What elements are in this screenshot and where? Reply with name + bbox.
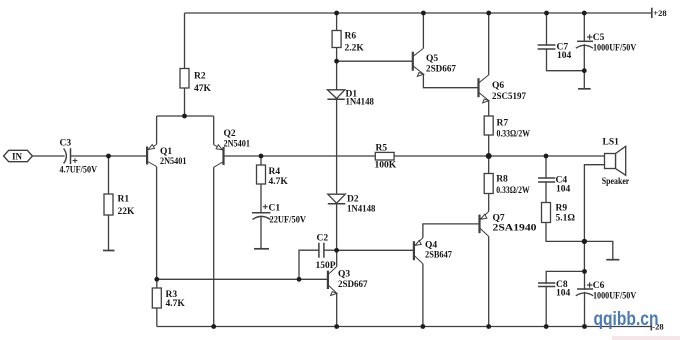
wire C4 R9 branch (546, 156, 584, 241)
svg-text:Q4: Q4 (425, 241, 437, 251)
svg-text:R9: R9 (556, 204, 568, 214)
wire R3 branch to bottom rail (156, 279, 158, 326)
resistor R5 (375, 144, 397, 171)
svg-text:1000UF/50V: 1000UF/50V (593, 291, 636, 301)
svg-text:IN: IN (12, 152, 23, 162)
wire Q6 emitter through R7 to output (488, 101, 490, 157)
wire Q2 collector to bottom rail (213, 167, 215, 326)
svg-text:104: 104 (557, 51, 572, 61)
resistor R1 (104, 194, 135, 217)
junction C4 output line (544, 154, 549, 159)
resistor R3 (152, 288, 185, 309)
ground (speaker return) (606, 259, 619, 261)
svg-text:+28: +28 (653, 8, 666, 18)
svg-text:2SD667: 2SD667 (338, 280, 368, 290)
svg-text:104: 104 (556, 184, 571, 194)
svg-text:C1: C1 (269, 204, 281, 214)
svg-text:R5: R5 (376, 144, 388, 154)
svg-text:5.1Ω: 5.1Ω (556, 214, 576, 224)
faint bottom watermark remnant (612, 336, 680, 340)
junction C7 top rail (544, 11, 549, 16)
junction Q3 emitter bottom rail (334, 324, 339, 329)
svg-text:R4: R4 (269, 167, 281, 177)
capacitor C8 (538, 280, 571, 299)
resistor R7 (484, 116, 530, 140)
capacitor C5 (576, 33, 637, 53)
svg-text:0.33Ω/2W: 0.33Ω/2W (497, 130, 531, 140)
resistor R9 (542, 203, 576, 224)
junction C2 base branch (297, 277, 302, 282)
junction R2 tail node (182, 114, 187, 119)
resistor R8 (484, 174, 530, 197)
transistor Q1 (147, 144, 187, 167)
svg-text:2N5401: 2N5401 (224, 140, 251, 150)
wire Q4 base bias line (337, 249, 414, 251)
wire R8 branch output to Q7 emitter (488, 156, 490, 212)
transistor Q4 (414, 238, 452, 264)
wire -28 terminal tick (650, 323, 652, 331)
svg-text:Q1: Q1 (160, 147, 172, 157)
svg-text:104: 104 (556, 289, 571, 299)
junction Q7 collector bottom rail (486, 324, 491, 329)
wire Q4 emitter to Q7 base (423, 224, 480, 238)
svg-text:2.2K: 2.2K (345, 44, 365, 54)
wire Q4 collector to bottom rail (422, 264, 424, 327)
wire Q5 base line (337, 60, 413, 62)
svg-text:2SA1940: 2SA1940 (493, 224, 537, 234)
junction Q2 collector bottom rail (211, 324, 216, 329)
svg-text:2N5401: 2N5401 (160, 157, 187, 167)
wire Q3 emitter to bottom rail (336, 293, 338, 326)
svg-text:Q6: Q6 (492, 81, 504, 91)
wire Q1 collector down to VAS node (156, 167, 158, 280)
svg-text:R6: R6 (345, 32, 357, 42)
wire R2 drop from rail to emitter line (184, 13, 186, 116)
svg-text:0.33Ω/2W: 0.33Ω/2W (496, 186, 530, 196)
junction C8 C6 branch (582, 269, 587, 274)
svg-text:2SC5197: 2SC5197 (492, 92, 526, 102)
diode D1 (327, 89, 374, 107)
svg-text:qqibb.cn: qqibb.cn (594, 309, 659, 330)
svg-text:Q5: Q5 (426, 54, 438, 64)
resistor R4 (257, 165, 289, 187)
ground (R1) (103, 250, 115, 252)
junction speaker return R9 (582, 239, 587, 244)
capacitor C4 (538, 175, 571, 194)
wire R1 branch down to ground (108, 156, 110, 251)
wire common emitter line (157, 115, 214, 117)
diode D2 (328, 194, 376, 214)
svg-text:4.7K: 4.7K (166, 299, 186, 309)
svg-text:4.7UF/50V: 4.7UF/50V (60, 166, 98, 176)
svg-text:100K: 100K (375, 161, 397, 171)
svg-text:47K: 47K (194, 84, 212, 94)
svg-text:22K: 22K (118, 207, 136, 217)
junction Q5 collector top rail (421, 11, 426, 16)
junction C7 C5 ground branch (582, 68, 587, 73)
capacitor C2 (316, 234, 336, 272)
transistor Q7 (480, 212, 537, 237)
svg-text:150P: 150P (316, 261, 336, 271)
wire C8 branch (546, 271, 584, 326)
svg-text:1N4148: 1N4148 (347, 205, 376, 215)
junction Q4 base bias node (334, 248, 339, 253)
wire Q7 collector to bottom rail (488, 236, 490, 326)
svg-text:D2: D2 (347, 195, 359, 205)
capacitor C3 (60, 139, 98, 176)
wire +28 terminal tick (651, 8, 653, 18)
wire ground stub right of speaker return (584, 241, 612, 259)
svg-text:R7: R7 (497, 119, 509, 129)
ground (C1) (254, 248, 269, 250)
transistor Q3 (328, 267, 368, 296)
connector IN (4, 150, 33, 161)
svg-text:22UF/50V: 22UF/50V (270, 216, 307, 226)
wire R4 C1 branch to ground (260, 156, 262, 249)
svg-text:Q3: Q3 (338, 270, 350, 280)
junction Q6 collector top rail (486, 11, 491, 16)
speaker LS1 (602, 138, 630, 188)
svg-text:2SD667: 2SD667 (426, 65, 456, 75)
wire C2 branch riser (299, 250, 319, 279)
junction R1 input node (106, 154, 111, 159)
wire top rail +28 (185, 12, 652, 14)
svg-text:C2: C2 (317, 234, 329, 244)
svg-text:Q2: Q2 (224, 129, 236, 139)
svg-text:Q7: Q7 (493, 214, 505, 224)
junction Q4 collector bottom rail (421, 324, 426, 329)
node output (R7 R8 junction) (486, 153, 492, 159)
transistor Q5 (413, 48, 456, 76)
wire Q3 collector lead (336, 250, 338, 266)
svg-text:R8: R8 (496, 175, 508, 185)
wire Q6 collector to rail (488, 13, 490, 75)
junction C5 top rail (582, 11, 587, 16)
capacitor C6 (576, 281, 637, 301)
svg-text:4.7K: 4.7K (269, 177, 289, 187)
wire C7 branch (547, 13, 585, 71)
junction C6 bottom rail (582, 324, 587, 329)
junction R6 top rail (334, 11, 339, 16)
wire C6 branch (584, 271, 586, 326)
svg-text:2SB647: 2SB647 (425, 251, 452, 261)
wire bottom rail -28 (157, 326, 652, 328)
wire C5 branch to ground (583, 13, 585, 89)
capacitor C1 (252, 204, 306, 226)
svg-text:Speaker: Speaker (602, 177, 630, 187)
svg-text:LS1: LS1 (603, 138, 620, 148)
wire C2 right lead (324, 249, 337, 251)
wire Q2 emitter lead (213, 116, 215, 145)
svg-text:C3: C3 (60, 139, 72, 149)
wire bias chain vertical R6 D1 D2 (336, 13, 338, 250)
svg-text:1N4148: 1N4148 (346, 98, 375, 108)
svg-text:R2: R2 (194, 72, 206, 82)
wire Q3 base line (157, 278, 328, 280)
wire Q5 emitter to Q6 base (423, 74, 478, 88)
svg-text:1000UF/50V: 1000UF/50V (593, 43, 636, 53)
node A Q1 collector / Q3 base (154, 277, 159, 282)
junction C8 bottom rail (544, 324, 549, 329)
svg-text:C5: C5 (593, 33, 605, 43)
wire main output line (225, 155, 605, 157)
svg-text:C6: C6 (593, 281, 605, 291)
resistor R2 (180, 69, 212, 95)
transistor Q6 (479, 75, 527, 103)
resistor R6 (332, 31, 364, 54)
junction R4 feedback node (259, 154, 264, 159)
wire Q1 emitter lead (156, 116, 158, 144)
capacitor C7 (538, 43, 572, 62)
transistor Q2 (214, 129, 251, 167)
svg-text:R1: R1 (118, 195, 130, 205)
wire Q5 collector to rail (422, 13, 424, 48)
junction Q5 base bias node (334, 59, 339, 64)
ground (C5 C7) (578, 88, 591, 90)
wire speaker return (584, 165, 604, 272)
wire input line IN to Q1 base (32, 155, 147, 157)
